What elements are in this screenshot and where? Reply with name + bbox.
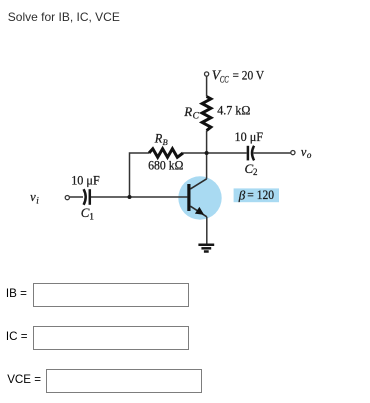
svg-text:1: 1 xyxy=(89,211,94,221)
svg-text:4.7 kΩ: 4.7 kΩ xyxy=(217,104,250,118)
svg-text:10 μF: 10 μF xyxy=(71,173,100,187)
svg-text:o: o xyxy=(307,150,312,160)
svg-text:10 μF: 10 μF xyxy=(235,130,264,144)
svg-text:2: 2 xyxy=(253,167,258,177)
svg-text:B: B xyxy=(163,138,168,147)
svg-text:CC: CC xyxy=(220,75,229,85)
svg-text:i: i xyxy=(36,195,39,205)
svg-text:= 120: = 120 xyxy=(247,188,274,202)
svg-text:R: R xyxy=(183,104,192,119)
svg-text:= 20 V: = 20 V xyxy=(233,69,265,83)
svg-text:C: C xyxy=(193,112,200,122)
svg-text:v: v xyxy=(30,190,36,204)
svg-text:R: R xyxy=(154,131,163,145)
svg-text:β: β xyxy=(238,187,246,202)
svg-text:680 kΩ: 680 kΩ xyxy=(148,159,183,173)
